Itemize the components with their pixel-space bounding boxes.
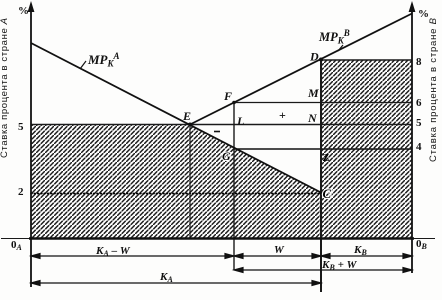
svg-text:Ставка процента в стране А: Ставка процента в стране А xyxy=(0,18,10,158)
label KA-W xyxy=(95,244,367,284)
vertical line below E xyxy=(189,125,191,239)
svg-text:Ставка процента в стране В: Ставка процента в стране В xyxy=(428,17,439,162)
hatched region country B (right block) xyxy=(321,60,412,238)
svg-text:КВ + W: КВ + W xyxy=(321,259,358,272)
bottom arrows row 1: KA-W xyxy=(31,254,412,286)
svg-text:E: E xyxy=(182,109,191,123)
bottom arrows row 1: W xyxy=(236,255,319,257)
point F xyxy=(232,101,236,105)
2-level dotted line to C xyxy=(31,193,321,195)
bottom arrows row 3: KA xyxy=(33,282,319,284)
bottom arrows row 1: KB xyxy=(323,255,410,257)
right axis (country B) xyxy=(411,4,413,273)
6-level line F to M to axis xyxy=(234,102,412,104)
svg-text:G: G xyxy=(222,149,231,163)
point C xyxy=(319,191,323,195)
svg-text:6: 6 xyxy=(416,97,422,109)
svg-text:M: M xyxy=(307,86,319,100)
svg-text:N: N xyxy=(307,111,318,125)
svg-text:8: 8 xyxy=(416,56,422,68)
point E xyxy=(188,123,192,127)
point D xyxy=(319,58,323,62)
svg-text:D: D xyxy=(309,50,319,64)
svg-text:4: 4 xyxy=(416,141,422,153)
MPK-B curve xyxy=(190,14,412,125)
leader tick MPK-B label xyxy=(338,45,343,51)
svg-text:F: F xyxy=(223,89,232,103)
5-level line through E, L, N xyxy=(31,124,412,126)
leader tick MPK-A label xyxy=(80,61,86,69)
svg-text:5: 5 xyxy=(416,117,422,129)
x axis xyxy=(1,238,435,240)
hatched region country A (under MPK-A curve) xyxy=(31,125,321,239)
svg-text:+: + xyxy=(279,108,286,122)
svg-text:КА – W: КА – W xyxy=(95,245,131,258)
MPK-A curve xyxy=(31,43,321,193)
svg-text:Z: Z xyxy=(323,153,330,164)
svg-text:L: L xyxy=(236,114,244,128)
4-level line xyxy=(234,148,412,150)
svg-text:2: 2 xyxy=(18,186,24,198)
left axis (country A) xyxy=(30,4,32,287)
bottom arrows row 2: KB+W xyxy=(236,269,410,271)
svg-text:5: 5 xyxy=(18,121,24,133)
svg-text:C: C xyxy=(323,186,332,201)
8-level line (top of right block, through D) xyxy=(321,59,412,61)
svg-text:W: W xyxy=(274,244,285,256)
minus sign xyxy=(214,131,220,133)
svg-text:%: % xyxy=(18,5,29,17)
vertical line F-G (x=234) xyxy=(233,103,235,271)
vertical line D-C (x=321) xyxy=(320,60,322,293)
